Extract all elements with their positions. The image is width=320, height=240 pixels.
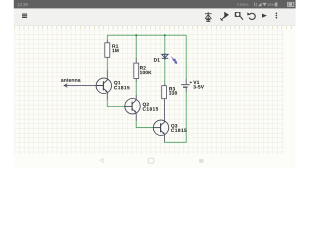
wire R1 top drop <box>106 35 108 40</box>
Q3 base lead <box>153 127 160 129</box>
nav recents button <box>199 159 203 163</box>
antenna wire arrow <box>64 84 103 88</box>
status bar <box>14 0 296 8</box>
transistor Q3 <box>153 120 168 136</box>
toolbar icon component <box>205 12 212 22</box>
label C1815 Q3 <box>171 129 186 132</box>
nav back button <box>100 158 103 162</box>
Q1 base lead <box>96 85 103 87</box>
Q2 base lead <box>125 105 132 107</box>
toolbar <box>14 9 296 26</box>
wire D1 body stem <box>164 54 166 60</box>
label C1815 Q1 <box>114 86 129 89</box>
antenna label <box>61 78 81 81</box>
transistor Q2 <box>125 99 140 115</box>
resistor R1 <box>105 43 110 58</box>
canvas sheet grid <box>15 30 284 155</box>
wire battery top drop <box>185 35 187 79</box>
label Q1 <box>114 81 120 85</box>
label D1 <box>154 58 160 61</box>
wire R2 top drop <box>135 35 137 58</box>
status net speed <box>237 3 249 6</box>
label R1 <box>112 44 118 47</box>
status battery percent <box>267 3 274 6</box>
toolbar icon overflow <box>276 13 278 19</box>
wire R3 to Q3 collector <box>163 99 165 121</box>
label R2 <box>140 66 146 69</box>
status signal icon <box>258 3 261 7</box>
label C1815 Q2 <box>143 107 158 110</box>
transistor Q1 <box>96 78 111 93</box>
LED D1 <box>162 54 169 58</box>
wire R2 to Q2 collector <box>135 82 137 96</box>
wire D1 top drop <box>164 35 166 54</box>
status battery icon <box>288 2 294 6</box>
wire D1 cathode to R3 <box>164 60 166 84</box>
wire top rail <box>107 34 186 36</box>
app background <box>14 0 296 168</box>
resistor R3 <box>162 86 167 99</box>
label V1 <box>193 81 199 84</box>
battery V1 plus plate <box>181 84 190 86</box>
label 330 <box>169 91 177 94</box>
toolbar icon zoom-fit <box>235 12 243 20</box>
wire Q3 emitter to battery minus <box>165 92 187 142</box>
toolbar icon undo <box>247 12 255 19</box>
wire Q1 emitter to Q2 base <box>107 100 125 107</box>
status updown icon <box>255 3 257 7</box>
toolbar icon play <box>262 14 267 18</box>
label 3-5V <box>193 85 204 88</box>
label Q3 <box>171 124 177 128</box>
status time <box>18 3 28 6</box>
label Q2 <box>143 103 149 107</box>
nav home button <box>148 158 154 163</box>
label 100K <box>140 71 152 74</box>
wire Q2 emitter to Q3 base <box>136 121 153 128</box>
label 1M <box>112 49 118 52</box>
label plus <box>190 81 192 83</box>
junction node R2-rail <box>135 34 137 36</box>
wire R1 to Q1 collector <box>106 57 108 70</box>
ruler ticks <box>15 26 292 29</box>
hamburger menu icon <box>22 14 27 17</box>
toolbar icon cursor <box>220 13 228 21</box>
LED D1 light arrows <box>171 57 177 64</box>
label R3 <box>169 87 175 90</box>
status small battery icon <box>275 3 278 7</box>
status wifi icon <box>262 3 266 6</box>
battery V1 minus plate <box>183 86 188 88</box>
resistor R2 <box>134 63 139 78</box>
junction node D1-rail <box>164 34 166 36</box>
